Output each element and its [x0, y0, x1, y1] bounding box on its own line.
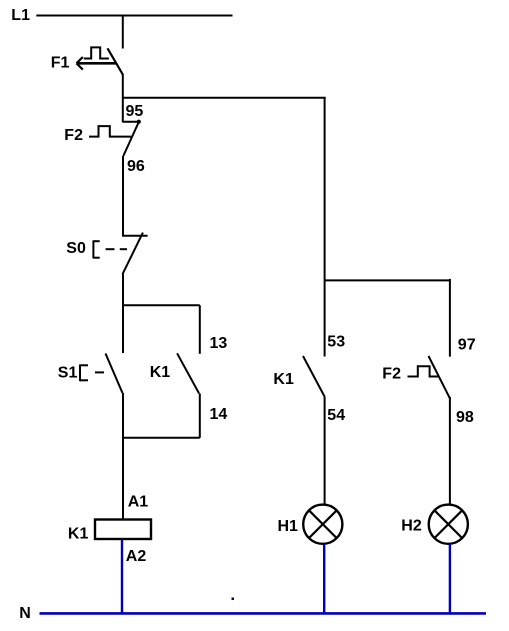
- wire lamp H1 to N bus: [323, 544, 325, 614]
- overload contact F2 thermal symbol: [89, 126, 131, 137]
- wire F1 to F2: [122, 74, 124, 123]
- contact F2 97-98 blade: [429, 356, 451, 399]
- breaker F1 actuator arrow: [77, 57, 117, 70]
- svg-text:K1: K1: [68, 525, 89, 542]
- svg-text:H2: H2: [401, 518, 422, 535]
- wire F2 to S0: [122, 156, 124, 236]
- svg-text:F2: F2: [382, 365, 401, 382]
- wire to K1 contact top (pin 13): [199, 305, 201, 354]
- wire to F2 contact top (pin 97): [449, 279, 451, 357]
- wire parallel branch top: [123, 304, 200, 306]
- wire branch to lamps (node 95 rail): [123, 97, 326, 99]
- svg-text:54: 54: [327, 407, 345, 424]
- wire N bus: [40, 612, 487, 615]
- wire lamp branch down: [324, 98, 326, 281]
- svg-text:F1: F1: [51, 54, 70, 71]
- breaker F1 contact blade: [108, 48, 123, 74]
- wire S0 to parallel branch: [122, 274, 124, 306]
- pushbutton S0 linkage dashes: [106, 248, 127, 250]
- svg-text:13: 13: [210, 335, 228, 352]
- wire to S1 top: [122, 306, 124, 354]
- svg-text:S1: S1: [58, 365, 78, 382]
- svg-text:97: 97: [458, 336, 476, 353]
- wire S1 bottom: [122, 393, 124, 439]
- overload contact F2 blade: [123, 122, 139, 157]
- svg-text:A2: A2: [126, 548, 147, 565]
- pushbutton S0 actuator: [93, 240, 99, 258]
- svg-text:96: 96: [127, 158, 145, 175]
- svg-text:K1: K1: [273, 371, 294, 388]
- junction dot F2 pivot: [137, 120, 141, 124]
- lamp H2: [429, 505, 468, 544]
- pushbutton S1 blade: [106, 354, 123, 394]
- wire to coil K1 (pin A1): [122, 438, 124, 520]
- svg-text:S0: S0: [66, 240, 86, 257]
- wire to K1 contact top (pin 53): [324, 280, 326, 356]
- svg-text:53: 53: [327, 334, 345, 351]
- contact K1 13-14 blade: [177, 353, 199, 393]
- stray dot: [232, 598, 235, 601]
- contact K1 53-54 blade: [303, 356, 325, 397]
- wire lamp branch top rail: [325, 279, 451, 281]
- coil K1: [95, 520, 151, 540]
- pushbutton S0 blade: [123, 233, 143, 275]
- wire coil K1 to N bus: [121, 539, 123, 613]
- breaker F1 thermal release symbol: [84, 47, 109, 58]
- svg-text:14: 14: [210, 406, 228, 423]
- wire lamp H2 to N bus: [449, 544, 451, 614]
- svg-text:A1: A1: [128, 493, 149, 510]
- contact F2 95-96 top stub: [123, 121, 139, 123]
- wire K1 53-54 to lamp H1: [324, 397, 326, 506]
- svg-text:98: 98: [456, 409, 474, 426]
- wire from L1 rail down to F1: [122, 16, 124, 49]
- wire F2 97-98 to lamp H2: [449, 397, 451, 506]
- svg-text:95: 95: [126, 103, 144, 120]
- svg-text:F2: F2: [64, 127, 83, 144]
- pushbutton S0 fixed contact bar: [122, 235, 148, 237]
- svg-text:K1: K1: [150, 364, 171, 381]
- svg-text:H1: H1: [278, 518, 299, 535]
- contact F2 97-98 thermal symbol: [408, 366, 439, 376]
- svg-text:L1: L1: [11, 7, 30, 24]
- wire L1 top rail: [36, 15, 232, 17]
- svg-text:N: N: [19, 605, 31, 622]
- wire K1 contact bottom: [199, 394, 201, 438]
- pushbutton S1 actuator: [80, 364, 88, 381]
- wire parallel branch bottom: [123, 437, 200, 439]
- pushbutton S1 linkage dash: [95, 371, 104, 373]
- lamp H1: [303, 505, 342, 544]
